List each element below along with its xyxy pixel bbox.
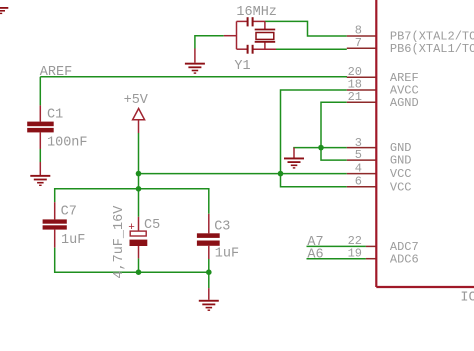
svg-text:1uF: 1uF xyxy=(61,233,85,248)
svg-text:16MHz: 16MHz xyxy=(236,5,277,20)
svg-text:PB6(XTAL1/TOSC1): PB6(XTAL1/TOSC1) xyxy=(390,42,474,56)
svg-text:C3: C3 xyxy=(214,219,230,234)
svg-text:4,7uF_16V: 4,7uF_16V xyxy=(112,205,127,279)
svg-text:C5: C5 xyxy=(144,218,160,233)
svg-text:+5V: +5V xyxy=(124,93,149,108)
svg-text:Y1: Y1 xyxy=(234,59,250,74)
svg-text:19: 19 xyxy=(348,246,362,260)
svg-text:IC1: IC1 xyxy=(460,291,474,306)
svg-text:C7: C7 xyxy=(61,205,77,220)
svg-text:AGND: AGND xyxy=(390,96,419,110)
svg-text:1uF: 1uF xyxy=(215,247,239,262)
svg-text:C1: C1 xyxy=(47,107,63,122)
svg-text:5: 5 xyxy=(355,148,362,162)
svg-text:AREF: AREF xyxy=(40,65,72,80)
svg-text:21: 21 xyxy=(348,90,362,104)
svg-text:A6: A6 xyxy=(307,247,323,262)
svg-text:100nF: 100nF xyxy=(47,135,88,150)
svg-text:GND: GND xyxy=(390,154,412,168)
svg-text:4: 4 xyxy=(355,161,362,175)
svg-text:VCC: VCC xyxy=(390,180,412,194)
svg-text:+: + xyxy=(128,222,135,234)
svg-text:6: 6 xyxy=(355,175,362,189)
svg-text:7: 7 xyxy=(355,36,362,50)
svg-text:ADC6: ADC6 xyxy=(390,252,419,266)
svg-text:VCC: VCC xyxy=(390,167,412,181)
